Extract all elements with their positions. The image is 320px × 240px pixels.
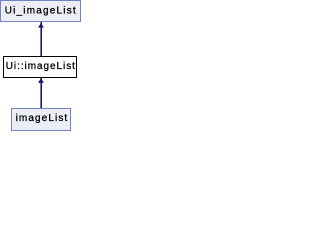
class box Ui_imageList (base class node): [1, 1, 81, 22]
inheritance arrow from imageList to Ui::imageList: [38, 78, 44, 109]
svg-text:imageList: imageList: [16, 113, 69, 124]
class box Ui::imageList (current class node): [4, 57, 77, 78]
svg-text:Ui::imageList: Ui::imageList: [6, 61, 76, 72]
class box imageList (derived class node): [12, 109, 71, 131]
inheritance arrow from Ui::imageList to Ui_imageList: [38, 22, 44, 57]
svg-text:Ui_imageList: Ui_imageList: [5, 6, 77, 17]
